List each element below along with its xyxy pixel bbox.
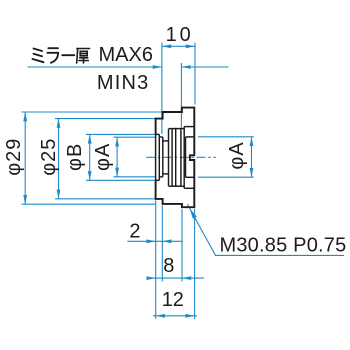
svg-text:12: 12: [162, 289, 184, 311]
dim line 12: [153, 315, 197, 317]
long bar: [62, 54, 74, 56]
svg-text:10: 10: [166, 24, 194, 46]
svg-text:φ25: φ25: [38, 138, 60, 176]
extension line x=162.4 (front face plane, top): [161, 43, 163, 135]
inner vertical faces: [155, 134, 157, 180]
centerline: [146, 156, 216, 158]
phi25: [57, 119, 61, 128]
phi25 extensions: [55, 118, 155, 120]
atsu: [77, 49, 90, 64]
svg-text:8: 8: [163, 255, 174, 277]
phi29 dim line: [24, 112, 26, 204]
2 dim outside arrows: [147, 239, 156, 243]
bottom extension lines: [155, 200, 157, 318]
extension x=181.4 (mirror stop plane, top): [180, 63, 182, 128]
svg-text:φB: φB: [64, 143, 86, 171]
ra: [47, 48, 58, 63]
MAX6 arrows: [153, 65, 162, 69]
dim line 2: [127, 240, 182, 242]
inner horizontal edges top: [156, 133, 160, 135]
svg-text:2: 2: [129, 221, 140, 243]
leader arrow at thread: [188, 207, 197, 219]
svg-text:φA: φA: [226, 141, 248, 169]
10 dim: inside arrows pointing outward: [162, 44, 171, 48]
phiA right extensions: [198, 136, 254, 138]
arrowheads: [23, 44, 253, 317]
extension line x=195 (rear face plane, top): [194, 43, 196, 105]
phiA left dim line: [116, 137, 118, 177]
phiA right: [250, 137, 254, 146]
phi29 extensions: [22, 111, 163, 113]
outer silhouette: [156, 108, 195, 208]
phiB: [88, 134, 92, 143]
dim line MAX6/MIN3 right part: [181, 66, 228, 68]
svg-text:φA: φA: [92, 143, 114, 171]
leader M30.85: [187, 204, 344, 255]
dim line MAX6/MIN3 left part: [28, 66, 162, 68]
svg-text:MAX6: MAX6: [99, 44, 153, 66]
phiB extensions: [86, 133, 155, 135]
phiA left extensions: [114, 136, 156, 138]
svg-text:φ29: φ29: [3, 138, 25, 176]
phiA right dim line: [251, 137, 253, 177]
dim line 8: [147, 277, 205, 279]
8 dim outside arrows: [147, 276, 156, 280]
mi: [33, 49, 44, 63]
phi29: [23, 112, 27, 121]
kanji "mirror thickness" drawn as paths: [33, 48, 90, 63]
svg-text:MIN3: MIN3: [97, 72, 150, 94]
phi25 dim line: [58, 119, 60, 199]
dim line 10: [162, 45, 195, 47]
inner horizontal edges bottom: [156, 179, 160, 181]
phiB dim line: [89, 134, 91, 180]
phiA left: [115, 137, 119, 146]
12 dim inside arrows: [156, 314, 165, 318]
svg-text:M30.85 P0.75: M30.85 P0.75: [220, 235, 347, 257]
